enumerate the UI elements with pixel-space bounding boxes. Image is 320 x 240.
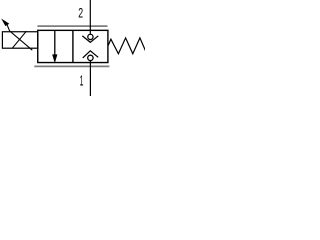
- solenoid box: [2, 32, 37, 48]
- valve body: [38, 30, 108, 62]
- svg-text:2: 2: [78, 6, 83, 21]
- check valve seat (top): [82, 36, 98, 43]
- proportional arrow shaft: [7, 25, 32, 51]
- cartridge top gray line: [37, 25, 107, 27]
- spring: [108, 38, 145, 54]
- flow arrow head: [52, 54, 57, 63]
- port 1 line: [89, 61, 91, 96]
- flow arrow shaft (open position): [54, 30, 56, 56]
- port 2 line: [89, 0, 91, 34]
- solenoid winding diagonal (ascending): [12, 31, 26, 48]
- svg-text:1: 1: [80, 73, 84, 90]
- proportional arrow head: [1, 19, 9, 27]
- check valve seat (bottom): [83, 51, 99, 58]
- cartridge bottom gray line: [34, 65, 109, 67]
- position divider: [72, 30, 74, 62]
- check valve ball (bottom): [88, 55, 93, 60]
- check valve ball (top): [88, 34, 93, 39]
